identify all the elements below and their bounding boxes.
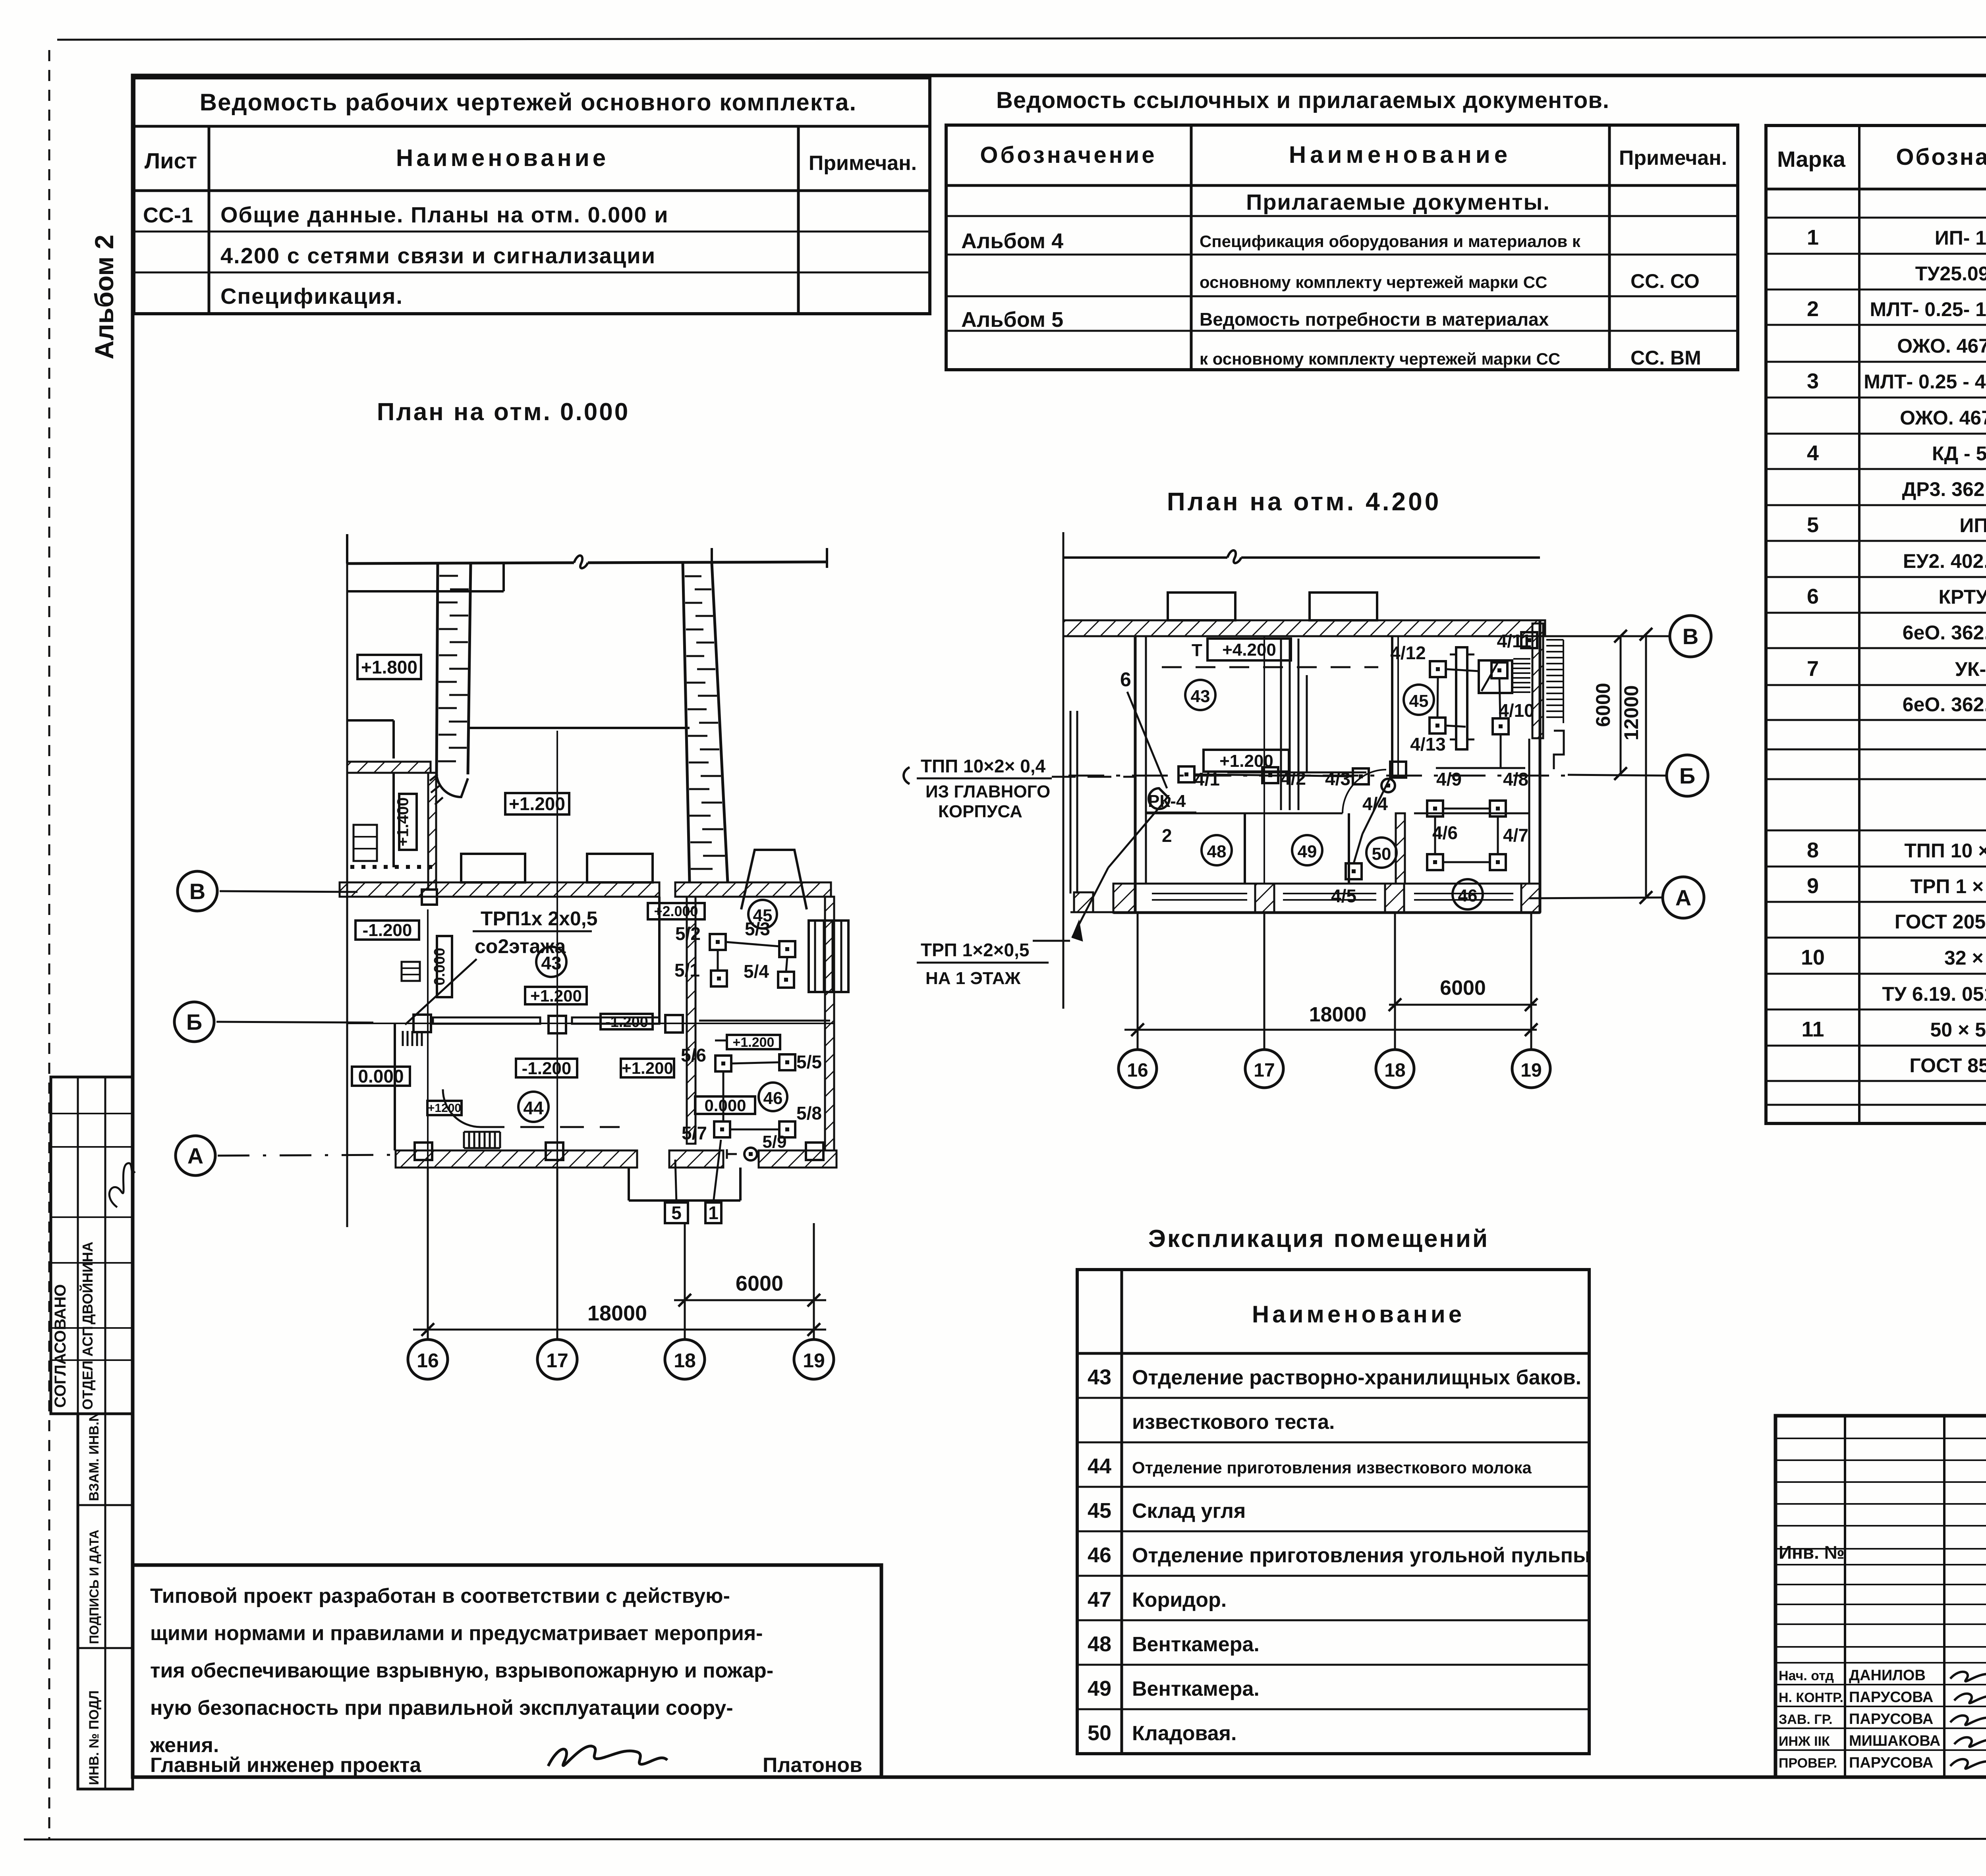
svg-text:17: 17 bbox=[1254, 1060, 1275, 1081]
bottom extension lines right plan bbox=[1137, 913, 1139, 1048]
-1.200 small label bbox=[601, 1014, 653, 1029]
-1.200 label left bbox=[355, 921, 419, 940]
svg-text:Альбом 2: Альбом 2 bbox=[89, 235, 119, 359]
room 44 walls bbox=[658, 897, 661, 1023]
svg-text:ДАНИЛОВ: ДАНИЛОВ bbox=[1849, 1667, 1926, 1684]
radiator small bbox=[402, 962, 420, 981]
svg-text:Обозначение: Обозначение bbox=[1896, 144, 1986, 170]
+1.200 label mid bbox=[525, 987, 587, 1004]
junction boxes on row B bbox=[413, 1015, 431, 1032]
svg-text:2: 2 bbox=[1807, 297, 1819, 321]
svg-text:Склад угля: Склад угля bbox=[1132, 1500, 1246, 1523]
svg-text:к основному комплекту чертежей: к основному комплекту чертежей марки СС bbox=[1200, 349, 1560, 368]
svg-text:+1200: +1200 bbox=[428, 1102, 461, 1115]
svg-text:План на отм. 4.200: План на отм. 4.200 bbox=[1167, 487, 1441, 516]
svg-text:+2.000: +2.000 bbox=[654, 903, 698, 919]
svg-text:ИПР: ИПР bbox=[1959, 514, 1986, 537]
svg-text:Типовой проект разработан в: Типовой проект разработан в соответствии… bbox=[150, 1585, 730, 1608]
svg-text:СС. СО: СС. СО bbox=[1631, 270, 1700, 292]
small comb left wall B bbox=[402, 1031, 404, 1046]
bottom wall hatched segments bbox=[396, 1150, 637, 1168]
svg-text:6: 6 bbox=[1120, 668, 1131, 691]
soglasovano table bbox=[51, 1077, 133, 1414]
svg-text:19: 19 bbox=[1520, 1060, 1542, 1081]
svg-text:1: 1 bbox=[708, 1202, 719, 1223]
svg-text:18000: 18000 bbox=[1309, 1003, 1367, 1026]
room 45 upper right bbox=[748, 900, 777, 928]
building east wall bbox=[1539, 620, 1542, 913]
svg-text:+1.200: +1.200 bbox=[509, 793, 565, 814]
cables room45 bbox=[1437, 677, 1438, 718]
svg-text:ЗАВ. ГР.: ЗАВ. ГР. bbox=[1779, 1712, 1833, 1727]
axis circle V bbox=[178, 871, 217, 911]
svg-text:7: 7 bbox=[1807, 657, 1819, 681]
svg-text:ТПП 10 × 2 × 0,4: ТПП 10 × 2 × 0,4 bbox=[1904, 840, 1986, 862]
+1.200 label room44 bbox=[621, 1059, 674, 1077]
svg-text:6000: 6000 bbox=[736, 1272, 783, 1295]
tank verticals room43 bbox=[1280, 639, 1282, 810]
svg-text:5: 5 bbox=[671, 1202, 682, 1223]
svg-text:4/8: 4/8 bbox=[1503, 769, 1528, 789]
svg-text:Наименование: Наименование bbox=[396, 145, 609, 171]
svg-text:Примечан.: Примечан. bbox=[1619, 147, 1727, 170]
paper edge bottom bbox=[24, 1839, 1986, 1839]
svg-text:5: 5 bbox=[1807, 513, 1819, 537]
right wall hatched bbox=[825, 897, 834, 1150]
svg-text:ТРП1х 2х0,5: ТРП1х 2х0,5 bbox=[481, 907, 597, 930]
window box with diagonal room45 bbox=[1479, 660, 1512, 693]
svg-text:6000: 6000 bbox=[1440, 977, 1486, 1000]
svg-text:Ведомость ссылочных и прилагае: Ведомость ссылочных и прилагаемых докуме… bbox=[996, 87, 1609, 113]
svg-text:НА 1 ЭТАЖ: НА 1 ЭТАЖ bbox=[925, 969, 1021, 988]
svg-text:4.200 с сетями связи и си: 4.200 с сетями связи и сигнализации bbox=[220, 243, 656, 268]
svg-text:ИП- 104-1: ИП- 104-1 bbox=[1935, 227, 1986, 249]
svg-text:-1.200: -1.200 bbox=[605, 1014, 648, 1031]
detectors 5/7 5/8 bbox=[714, 1121, 730, 1137]
svg-text:4/13: 4/13 bbox=[1410, 734, 1446, 755]
svg-text:СС-1: СС-1 bbox=[143, 203, 193, 227]
svg-text:щими нормами и правилами и: щими нормами и правилами и предусматрива… bbox=[150, 1622, 763, 1645]
svg-text:Б: Б bbox=[1679, 763, 1695, 788]
svg-text:45: 45 bbox=[1088, 1499, 1111, 1523]
svg-text:Ведомость рабочих чертежей осн: Ведомость рабочих чертежей основного ком… bbox=[200, 89, 857, 116]
detectors 5/6 5/5 bbox=[715, 1056, 731, 1071]
svg-text:+4.200: +4.200 bbox=[1222, 640, 1276, 660]
east wall inner line bbox=[1528, 739, 1530, 884]
svg-text:Обозначение: Обозначение bbox=[980, 142, 1157, 168]
window on west wall bbox=[354, 825, 377, 861]
left wall lower bbox=[394, 1023, 396, 1150]
+1.200 label room top bbox=[505, 793, 569, 814]
svg-text:КРТУ- 10: КРТУ- 10 bbox=[1938, 586, 1986, 608]
svg-text:50: 50 bbox=[1088, 1721, 1111, 1745]
svg-text:3: 3 bbox=[1807, 369, 1819, 393]
svg-text:50 × 50 × 5: 50 × 50 × 5 bbox=[1930, 1019, 1986, 1041]
gost margin boxes bbox=[78, 1414, 133, 1789]
svg-text:18: 18 bbox=[674, 1349, 696, 1372]
svg-text:ОЖО. 467. 180ТУ: ОЖО. 467. 180ТУ bbox=[1900, 407, 1986, 429]
svg-text:ПАРУСОВА: ПАРУСОВА bbox=[1849, 1689, 1933, 1706]
svg-text:5/4: 5/4 bbox=[744, 961, 769, 982]
svg-text:5/6: 5/6 bbox=[681, 1045, 706, 1065]
svg-text:В: В bbox=[189, 879, 205, 904]
svg-text:4/6: 4/6 bbox=[1432, 822, 1458, 843]
svg-text:44: 44 bbox=[1088, 1454, 1111, 1478]
grid line 16 thin bbox=[427, 909, 429, 1168]
room circle 46 bbox=[759, 1083, 787, 1111]
dim extension lines bottom bbox=[427, 1168, 429, 1339]
svg-text:ИЗ ГЛАВНОГО: ИЗ ГЛАВНОГО bbox=[925, 782, 1050, 801]
svg-text:КОРПУСА: КОРПУСА bbox=[938, 802, 1022, 821]
svg-text:10: 10 bbox=[1801, 946, 1825, 969]
svg-text:ГОСТ 8509 - 86: ГОСТ 8509 - 86 bbox=[1909, 1054, 1986, 1077]
svg-text:КД - 521 А: КД - 521 А bbox=[1932, 442, 1986, 465]
hatched band upper-left bbox=[347, 762, 431, 773]
+1.200 label right plan bbox=[1204, 750, 1289, 772]
svg-text:43: 43 bbox=[1191, 687, 1210, 706]
svg-text:Лист: Лист bbox=[145, 148, 197, 173]
svg-text:18000: 18000 bbox=[587, 1301, 647, 1325]
svg-text:ГОСТ 20575 - 75 Е: ГОСТ 20575 - 75 Е bbox=[1895, 911, 1986, 933]
svg-text:ТУ 6.19. 051. 249 - 79: ТУ 6.19. 051. 249 - 79 bbox=[1882, 983, 1986, 1005]
-1.200 label room44 bbox=[516, 1059, 577, 1077]
svg-text:Спецификация.: Спецификация. bbox=[220, 284, 403, 309]
ladder tower 2 bbox=[683, 563, 690, 882]
dashed line room43 bbox=[1162, 666, 1378, 668]
svg-text:ИНЖ IIК: ИНЖ IIК bbox=[1779, 1734, 1830, 1749]
svg-text:4/3: 4/3 bbox=[1325, 768, 1350, 789]
svg-text:Отделение растворно-хранилищны: Отделение растворно-хранилищных баков. bbox=[1132, 1366, 1581, 1389]
ladder tower 1 bbox=[437, 563, 438, 774]
detectors room46 bbox=[1427, 801, 1443, 816]
note text block bbox=[133, 1565, 881, 1777]
svg-text:5/5: 5/5 bbox=[796, 1052, 822, 1072]
detectors row B bbox=[1178, 766, 1194, 782]
signature margin bbox=[109, 1163, 135, 1207]
svg-text:Платонов: Платонов bbox=[763, 1754, 862, 1777]
svg-text:49: 49 bbox=[1088, 1677, 1111, 1700]
room circles right plan bbox=[1185, 680, 1215, 710]
axis B dashed bbox=[1068, 775, 1565, 777]
detectors 5/2 5/3 5/1 5/4 bbox=[710, 934, 726, 950]
svg-text:4/7: 4/7 bbox=[1503, 825, 1528, 845]
svg-text:11: 11 bbox=[1801, 1017, 1824, 1041]
grid circles 16-19 right plan bbox=[1119, 1050, 1157, 1088]
svg-text:ПРОВЕР.: ПРОВЕР. bbox=[1779, 1756, 1837, 1771]
svg-text:Общие данные. Планы на отм. 0: Общие данные. Планы на отм. 0.000 и bbox=[220, 202, 669, 227]
axis circles right plan bbox=[1670, 616, 1711, 657]
paper edge top bbox=[57, 37, 1986, 40]
svg-text:Наименование: Наименование bbox=[1289, 141, 1511, 168]
table: vedomost rabochih chertezhey bbox=[134, 78, 930, 314]
svg-text:4/12: 4/12 bbox=[1390, 643, 1426, 663]
svg-text:Альбом 5: Альбом 5 bbox=[961, 308, 1063, 332]
funnel outline room45 bbox=[741, 850, 807, 909]
svg-text:Ведомость потребности в матери: Ведомость потребности в материалах bbox=[1200, 309, 1549, 330]
corridor wall hatched vertical bbox=[687, 897, 695, 1144]
svg-text:Нач. отд: Нач. отд bbox=[1779, 1668, 1834, 1683]
0.000 rotated label bbox=[437, 936, 452, 997]
bottom wall hatch piers bbox=[1113, 884, 1135, 913]
grid line 17 thin bbox=[556, 731, 558, 1168]
svg-text:тия обеспечивающие взрывную,: тия обеспечивающие взрывную, взрывопожар… bbox=[150, 1659, 773, 1682]
svg-text:43: 43 bbox=[541, 953, 561, 973]
left plan west wall line bbox=[346, 564, 348, 1227]
pilaster 1 bbox=[461, 854, 525, 882]
svg-text:17: 17 bbox=[546, 1349, 568, 1372]
svg-text:0.000: 0.000 bbox=[704, 1096, 746, 1115]
svg-text:ТУ25.09.1 - 83: ТУ25.09.1 - 83 bbox=[1915, 262, 1986, 285]
svg-text:СС. ВМ: СС. ВМ bbox=[1631, 347, 1701, 369]
junction box on V wall bbox=[422, 890, 437, 905]
wall column squares bottom bbox=[415, 1143, 432, 1160]
svg-text:+1.200: +1.200 bbox=[733, 1035, 775, 1050]
west annex wall bbox=[1070, 711, 1072, 894]
dashed floor line room44 bbox=[481, 1126, 620, 1128]
0.000 label left bbox=[352, 1067, 410, 1086]
svg-text:48: 48 bbox=[1088, 1632, 1111, 1656]
svg-text:4/5: 4/5 bbox=[1331, 886, 1356, 906]
svg-text:50: 50 bbox=[1372, 844, 1391, 864]
svg-text:0.000: 0.000 bbox=[431, 948, 448, 985]
heat exchanger stack bbox=[809, 921, 848, 992]
axis circle B bbox=[174, 1002, 214, 1042]
svg-text:46: 46 bbox=[1458, 886, 1478, 905]
svg-text:МЛТ- 0.25- 11КОМ ± 5%: МЛТ- 0.25- 11КОМ ± 5% bbox=[1870, 298, 1986, 320]
svg-text:5/1: 5/1 bbox=[674, 960, 700, 980]
manual detector 5/9 bbox=[744, 1148, 757, 1160]
pilaster 2 bbox=[587, 854, 653, 882]
svg-text:45: 45 bbox=[1409, 691, 1429, 711]
duct rect room45 bbox=[1456, 647, 1467, 749]
svg-text:Кладовая.: Кладовая. bbox=[1132, 1722, 1236, 1745]
detector cluster top room45 bbox=[1430, 661, 1446, 677]
top wall hatched bbox=[1063, 620, 1545, 636]
svg-text:+1.400: +1.400 bbox=[394, 797, 412, 846]
svg-text:4/9: 4/9 bbox=[1436, 769, 1462, 789]
svg-text:РК-4: РК-4 bbox=[1148, 791, 1186, 811]
svg-text:основному комплекту чертежей: основному комплекту чертежей марки СС bbox=[1200, 273, 1547, 291]
svg-text:Альбом 4: Альбом 4 bbox=[961, 229, 1063, 253]
svg-text:ТПП 10×2× 0,4: ТПП 10×2× 0,4 bbox=[921, 756, 1046, 776]
right plan left grid line bbox=[1063, 532, 1064, 1009]
svg-text:5/2: 5/2 bbox=[675, 923, 701, 944]
comb outside right wall bbox=[1546, 639, 1563, 641]
lower shelf room43 bbox=[1227, 772, 1366, 774]
svg-text:Венткамера.: Венткамера. bbox=[1132, 1633, 1260, 1656]
svg-text:Экспликация помещений: Экспликация помещений bbox=[1148, 1225, 1489, 1253]
svg-text:СОГЛАСОВАНО: СОГЛАСОВАНО bbox=[52, 1284, 69, 1408]
svg-text:48: 48 bbox=[1207, 842, 1227, 861]
svg-text:Марка: Марка bbox=[1777, 147, 1846, 172]
svg-text:Н. КОНТР.: Н. КОНТР. bbox=[1779, 1690, 1843, 1705]
svg-text:4/1: 4/1 bbox=[1194, 769, 1220, 789]
right dim lines vertical bbox=[1620, 636, 1622, 774]
svg-text:18: 18 bbox=[1384, 1060, 1405, 1081]
svg-text:46: 46 bbox=[1088, 1543, 1111, 1567]
svg-text:Венткамера.: Венткамера. bbox=[1132, 1677, 1260, 1700]
svg-text:4/2: 4/2 bbox=[1281, 768, 1306, 789]
svg-text:ПАРУСОВА: ПАРУСОВА bbox=[1849, 1711, 1933, 1727]
+1.400 rotated label bbox=[399, 794, 417, 850]
upper-left room line bbox=[347, 590, 504, 593]
svg-text:6: 6 bbox=[1807, 585, 1819, 608]
svg-text:46: 46 bbox=[763, 1089, 783, 1108]
svg-text:2: 2 bbox=[1162, 825, 1172, 846]
svg-text:Отделение приготовления извест: Отделение приготовления известкового мол… bbox=[1132, 1458, 1532, 1477]
partitions lower bbox=[1244, 813, 1246, 884]
upper-left partition bbox=[347, 719, 394, 722]
row B cable strips bbox=[433, 1017, 540, 1024]
svg-text:ПАРУСОВА: ПАРУСОВА bbox=[1849, 1754, 1933, 1771]
svg-text:УК- П: УК- П bbox=[1955, 658, 1986, 680]
svg-text:5/9: 5/9 bbox=[762, 1132, 786, 1152]
svg-text:5/8: 5/8 bbox=[796, 1103, 822, 1123]
svg-text:Спецификация оборудования и ма: Спецификация оборудования и материалов к bbox=[1200, 232, 1581, 251]
+1200 small label bbox=[427, 1101, 462, 1115]
svg-text:ную безопасность при правил: ную безопасность при правильной эксплуат… bbox=[150, 1697, 733, 1720]
svg-text:Прилагаемые документы.: Прилагаемые документы. bbox=[1246, 189, 1550, 214]
svg-text:МИШАКОВА: МИШАКОВА bbox=[1849, 1733, 1940, 1749]
svg-text:49: 49 bbox=[1298, 842, 1317, 861]
svg-text:5/7: 5/7 bbox=[682, 1123, 707, 1143]
svg-text:5/3: 5/3 bbox=[745, 919, 770, 939]
room circle 44 bbox=[518, 1092, 549, 1122]
svg-text:ЕУ2. 402. 004 ТУ: ЕУ2. 402. 004 ТУ bbox=[1903, 550, 1986, 572]
svg-text:6еО. 362. 016 ТУ: 6еО. 362. 016 ТУ bbox=[1903, 621, 1986, 644]
0.000 label room46 bbox=[695, 1096, 755, 1114]
bump rectangles top bbox=[1168, 593, 1235, 620]
svg-text:+1.800: +1.800 bbox=[361, 657, 417, 677]
detector 4/5 bbox=[1346, 863, 1362, 879]
east wall hatch inner strip bbox=[1532, 623, 1543, 738]
svg-text:Б: Б bbox=[186, 1009, 202, 1035]
building west wall bbox=[1134, 636, 1137, 913]
svg-text:1: 1 bbox=[1807, 226, 1819, 249]
svg-text:Инв. №: Инв. № bbox=[1779, 1542, 1845, 1563]
partition 43-45 bbox=[1391, 636, 1393, 776]
+1.800 label bbox=[357, 655, 421, 679]
right plan roof edge bbox=[1063, 556, 1227, 559]
hatched wall 50-46 bbox=[1396, 813, 1405, 884]
svg-text:Т: Т bbox=[1192, 641, 1202, 660]
grid circles 16-19 bbox=[408, 1339, 448, 1379]
svg-text:32 × 1.8: 32 × 1.8 bbox=[1944, 947, 1986, 969]
internal line between towers bbox=[468, 727, 690, 729]
svg-text:ОТДЕЛ АСП: ОТДЕЛ АСП bbox=[79, 1326, 96, 1410]
svg-text:Главный инженер проекта: Главный инженер проекта bbox=[150, 1754, 421, 1777]
row V wall hatched bbox=[340, 882, 659, 897]
svg-text:План на отм. 0.000: План на отм. 0.000 bbox=[377, 398, 630, 426]
svg-text:А: А bbox=[1675, 885, 1691, 910]
svg-text:ТРП 1 × 2 × 0,5: ТРП 1 × 2 × 0,5 bbox=[1911, 875, 1986, 897]
svg-text:+1.200: +1.200 bbox=[530, 986, 582, 1005]
svg-text:19: 19 bbox=[803, 1349, 825, 1372]
svg-text:4/4: 4/4 bbox=[1362, 793, 1388, 814]
svg-text:+1.200: +1.200 bbox=[622, 1059, 673, 1077]
svg-text:А: А bbox=[187, 1143, 203, 1168]
svg-text:ПОДПИСЬ И ДАТА: ПОДПИСЬ И ДАТА bbox=[87, 1530, 101, 1644]
svg-text:МЛТ- 0.25 - 4.3 КОМ ±5%: МЛТ- 0.25 - 4.3 КОМ ±5% bbox=[1864, 371, 1986, 393]
row B axis wall line bbox=[347, 1023, 834, 1024]
svg-text:ОЖО. 467. 180 ТУ: ОЖО. 467. 180 ТУ bbox=[1897, 335, 1986, 357]
svg-text:ИНВ. № ПОДЛ: ИНВ. № ПОДЛ bbox=[87, 1691, 102, 1785]
TRP leader arrow bbox=[1033, 940, 1070, 942]
svg-text:-1.200: -1.200 bbox=[363, 921, 412, 940]
svg-text:16: 16 bbox=[1127, 1060, 1148, 1081]
signature GIP bbox=[548, 1746, 667, 1766]
svg-text:16: 16 bbox=[417, 1349, 439, 1372]
stairwell comb top right inside bbox=[1513, 658, 1530, 660]
svg-text:ДР3. 362. 035 ТУ: ДР3. 362. 035 ТУ bbox=[1902, 478, 1986, 500]
left plan building top edge bbox=[347, 563, 574, 564]
svg-text:9: 9 bbox=[1807, 874, 1819, 898]
svg-text:43: 43 bbox=[1088, 1365, 1111, 1389]
svg-text:Коридор.: Коридор. bbox=[1132, 1588, 1227, 1612]
+1.200 boxed room46 top bbox=[727, 1035, 780, 1049]
svg-text:0.000: 0.000 bbox=[358, 1066, 404, 1087]
paper edge left (dashed) bbox=[48, 50, 50, 1839]
corridor line bbox=[1146, 813, 1343, 814]
svg-text:47: 47 bbox=[1088, 1588, 1111, 1612]
svg-text:ДВОЙНИНА: ДВОЙНИНА bbox=[79, 1242, 96, 1325]
svg-text:44: 44 bbox=[523, 1098, 544, 1118]
svg-text:8: 8 bbox=[1807, 838, 1819, 862]
axis circle A bbox=[176, 1136, 215, 1175]
bottom wall window lines bbox=[1152, 893, 1247, 894]
svg-text:4: 4 bbox=[1807, 441, 1819, 465]
bottom wall double line bbox=[1113, 911, 1540, 914]
left wall below band hatched bbox=[428, 773, 436, 890]
grid line 17 inside bbox=[1263, 636, 1265, 884]
risers 5 and 1 labels bbox=[665, 1202, 688, 1223]
svg-text:6еО. 362. 013 ТУ: 6еО. 362. 013 ТУ bbox=[1903, 693, 1986, 716]
tower1 bottom hook bbox=[437, 774, 468, 797]
svg-text:Наименование: Наименование bbox=[1252, 1301, 1465, 1328]
svg-text:12000: 12000 bbox=[1620, 685, 1642, 740]
bottom protrusion outline bbox=[628, 1168, 630, 1200]
title block (stamp) bbox=[1775, 1416, 1986, 1777]
dotted line above V wall bbox=[350, 865, 354, 869]
svg-text:6000: 6000 bbox=[1592, 683, 1614, 727]
stairs comb room44 bbox=[463, 1132, 465, 1148]
svg-text:В: В bbox=[1683, 624, 1698, 649]
svg-text:ВЗАМ. ИНВ.N: ВЗАМ. ИНВ.N bbox=[87, 1412, 102, 1501]
svg-text:ТРП 1×2×0,5: ТРП 1×2×0,5 bbox=[921, 940, 1029, 960]
svg-text:Примечан.: Примечан. bbox=[809, 152, 917, 175]
svg-text:известкового теста.: известкового теста. bbox=[1132, 1411, 1335, 1434]
svg-text:Отделение приготовления угольн: Отделение приготовления угольной пульпы bbox=[1132, 1544, 1590, 1567]
svg-text:-1.200: -1.200 bbox=[522, 1059, 572, 1078]
room circle 43 bbox=[536, 947, 566, 977]
